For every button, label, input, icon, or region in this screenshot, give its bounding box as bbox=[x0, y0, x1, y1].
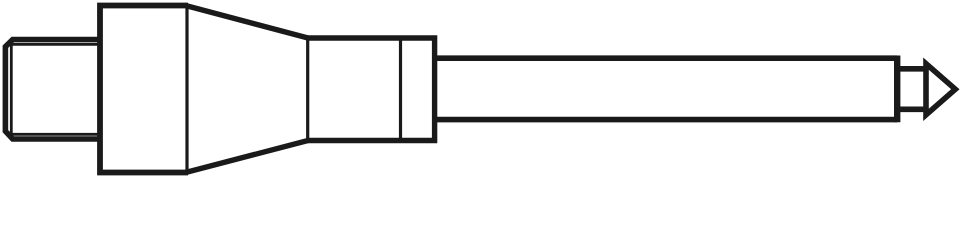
taper top edge bbox=[186, 6, 309, 39]
taper bottom edge bbox=[186, 141, 309, 173]
cone tip (triangle) bbox=[926, 64, 955, 115]
shaft end cap (vertical) bbox=[894, 56, 900, 123]
thread minor diameter line, bottom bbox=[11, 133, 100, 136]
shaft top edge bbox=[435, 55, 898, 61]
collar outline bbox=[306, 38, 435, 141]
tip neck top edge bbox=[897, 66, 926, 72]
taper/collar junction line (thin vertical) bbox=[306, 37, 309, 142]
tip neck bottom edge bbox=[897, 106, 926, 112]
shaft bottom edge bbox=[435, 117, 898, 123]
threaded stud outline (left end, chamfered) bbox=[5, 40, 99, 140]
collar groove line (thin vertical) bbox=[399, 37, 402, 143]
thread minor diameter line, top bbox=[11, 43, 100, 46]
thread chamfer circle line (thin vertical at stud end) bbox=[10, 39, 13, 141]
flange/taper junction line (thin vertical) bbox=[185, 4, 188, 175]
body flange outline (large block) bbox=[100, 6, 188, 173]
